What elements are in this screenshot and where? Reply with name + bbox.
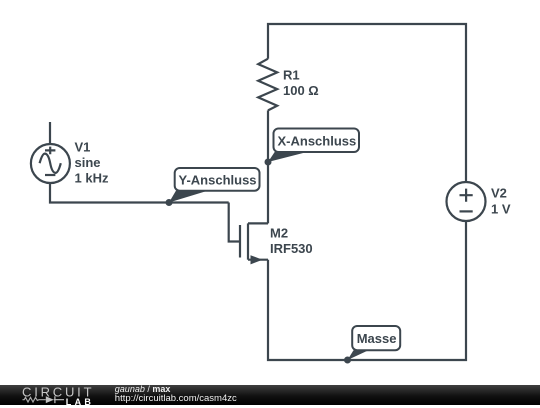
label V2 value bbox=[491, 186, 511, 217]
resistor R1 bbox=[258, 59, 277, 111]
svg-text:R1: R1 bbox=[283, 68, 300, 83]
wire V1 top stub bbox=[49, 122, 51, 144]
credit text bbox=[115, 384, 171, 394]
svg-text:IRF530: IRF530 bbox=[270, 241, 313, 256]
wire R1 top / top rail / V2 top bbox=[268, 24, 466, 182]
svg-text:1 V: 1 V bbox=[491, 201, 511, 216]
svg-text:M2: M2 bbox=[270, 226, 288, 241]
svg-text:V2: V2 bbox=[491, 186, 507, 201]
voltage source V2 (DC) bbox=[447, 182, 486, 221]
share url bbox=[115, 393, 237, 404]
wire gate lead bbox=[229, 203, 240, 242]
svg-text:sine: sine bbox=[75, 155, 101, 170]
CircuitLab logo bbox=[0, 385, 100, 408]
node flag Masse bbox=[344, 326, 400, 364]
svg-text:Masse: Masse bbox=[357, 331, 397, 346]
label M2 value bbox=[270, 226, 313, 257]
wire V1 bottom to gate riser bbox=[50, 184, 229, 203]
footer bar bbox=[0, 385, 540, 406]
label V1 value bbox=[75, 139, 109, 185]
node flag Y-Anschluss bbox=[166, 168, 260, 206]
wire M2 source / bottom rail / V2 bottom bbox=[268, 221, 466, 360]
transistor M2 (NMOS) bbox=[240, 223, 268, 264]
svg-text:Y-Anschluss: Y-Anschluss bbox=[179, 173, 257, 188]
node flag X-Anschluss bbox=[265, 129, 360, 166]
voltage source V1 (AC) bbox=[31, 144, 70, 183]
svg-text:X-Anschluss: X-Anschluss bbox=[278, 134, 357, 149]
svg-text:1 kHz: 1 kHz bbox=[75, 171, 109, 186]
svg-text:100 Ω: 100 Ω bbox=[283, 83, 319, 98]
label R1 value bbox=[283, 68, 319, 99]
svg-text:V1: V1 bbox=[75, 139, 91, 154]
wire R1 bottom to M2 drain bbox=[267, 110, 269, 223]
